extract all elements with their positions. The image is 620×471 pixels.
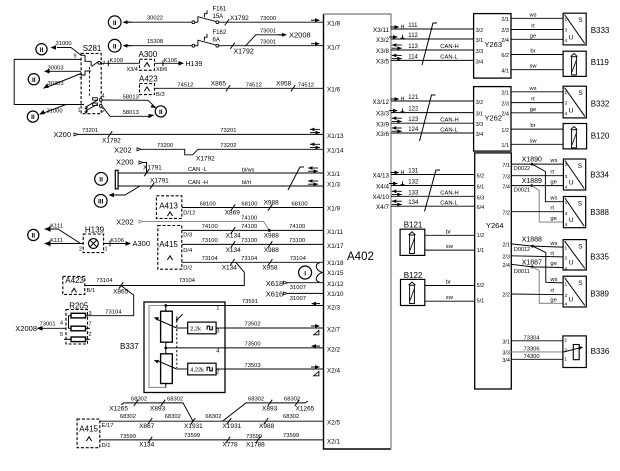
- svg-text:2/3: 2/3: [502, 254, 510, 260]
- svg-text:rt: rt: [550, 170, 554, 176]
- svg-text:3: 3: [565, 211, 568, 217]
- svg-text:K106: K106: [164, 58, 178, 64]
- svg-text:3: 3: [564, 347, 567, 353]
- svg-text:122: 122: [408, 107, 419, 113]
- svg-text:68302: 68302: [131, 396, 147, 402]
- svg-text:73200: 73200: [157, 143, 173, 149]
- wire K109: [101, 58, 163, 73]
- wire 15308: [123, 39, 194, 48]
- svg-text:123: 123: [408, 117, 419, 123]
- B337 pin1 wire 73591 to X2/3: [166, 299, 324, 311]
- svg-text:6/1: 6/1: [477, 185, 485, 191]
- CAN terminator block: [115, 170, 118, 189]
- svg-text:rt: rt: [531, 24, 535, 30]
- svg-text:3: 3: [565, 174, 568, 180]
- wire ws X1890 D0022 to B334: [511, 157, 563, 172]
- svg-text:X3/8: X3/8: [376, 48, 389, 55]
- svg-text:15308: 15308: [147, 39, 163, 45]
- svg-text:U: U: [569, 34, 574, 41]
- svg-text:2/4: 2/4: [501, 112, 509, 118]
- svg-text:X867: X867: [139, 423, 155, 430]
- svg-text:1: 1: [216, 306, 219, 312]
- svg-text:2/2: 2/2: [502, 293, 510, 299]
- svg-text:114: 114: [408, 54, 418, 60]
- wire rt to B335 pin3: [511, 251, 563, 257]
- svg-text:X1265: X1265: [296, 406, 315, 413]
- wire K111 lower: [44, 238, 83, 247]
- svg-text:A415: A415: [159, 240, 178, 249]
- svg-text:4: 4: [102, 93, 105, 99]
- B121 wires br sw to Y264: [425, 229, 475, 250]
- svg-text:U: U: [569, 259, 574, 266]
- svg-text:2/1: 2/1: [501, 17, 509, 23]
- svg-text:ws: ws: [528, 12, 536, 18]
- svg-text:br: br: [446, 280, 451, 286]
- svg-text:3/1: 3/1: [502, 339, 510, 345]
- wire 73001 to X2008: [15, 321, 66, 332]
- twisted pair marker bundle 1: [422, 23, 437, 65]
- svg-text:132: 132: [408, 180, 419, 186]
- svg-text:X1/6: X1/6: [327, 86, 340, 93]
- svg-text:X958: X958: [262, 265, 278, 272]
- svg-text:D/4: D/4: [183, 248, 193, 254]
- svg-text:73000: 73000: [260, 16, 276, 22]
- svg-text:B332: B332: [591, 100, 610, 109]
- circle II left mid: [28, 74, 39, 85]
- svg-text:X3/6: X3/6: [376, 131, 389, 138]
- wire 73104 from B/1 to X865 junction: [85, 278, 129, 296]
- svg-text:73202: 73202: [220, 143, 236, 149]
- svg-text:X618: X618: [266, 279, 284, 288]
- svg-text:134: 134: [408, 200, 419, 206]
- svg-text:73001: 73001: [260, 40, 276, 46]
- svg-text:X2008: X2008: [289, 31, 311, 40]
- svg-text:K106: K106: [110, 238, 124, 244]
- svg-text:X1/7: X1/7: [327, 44, 340, 51]
- wire rt to B334 pin3: [511, 170, 563, 176]
- svg-text:6/3: 6/3: [477, 195, 485, 201]
- svg-text:X3/9: X3/9: [376, 121, 389, 128]
- svg-text:73599: 73599: [120, 434, 136, 440]
- svg-text:III: III: [98, 199, 104, 206]
- branch ge (gray) to B389 pin4: [533, 267, 564, 304]
- svg-text:D0011: D0011: [514, 269, 530, 275]
- potentiometer 2: [154, 342, 225, 387]
- svg-text:30022: 30022: [147, 16, 163, 22]
- svg-text:2: 2: [89, 332, 92, 338]
- svg-text:3/3: 3/3: [502, 350, 510, 356]
- wire rt to B388 pin3: [511, 206, 563, 212]
- svg-text:X3/2: X3/2: [376, 37, 389, 44]
- svg-text:73104: 73104: [202, 256, 219, 262]
- svg-text:2/1: 2/1: [502, 243, 510, 249]
- svg-text:X202: X202: [116, 218, 134, 227]
- svg-text:Y264: Y264: [486, 221, 504, 230]
- svg-text:X202: X202: [114, 145, 132, 154]
- svg-text:7: 7: [102, 61, 105, 67]
- node 30-supply circle II row1: [108, 16, 121, 29]
- sensor B335: [563, 240, 609, 272]
- wire 31007 X616 to X1/10: [266, 289, 324, 302]
- svg-text:X3/11: X3/11: [373, 27, 389, 34]
- node 15-supply circle II row2: [108, 39, 121, 52]
- svg-text:D0022: D0022: [514, 166, 530, 172]
- svg-text:S: S: [578, 163, 583, 170]
- wire loop from pin 9 to pin 1 (31000): [14, 59, 81, 104]
- svg-text:B335: B335: [590, 253, 609, 262]
- svg-text:112: 112: [408, 33, 418, 39]
- svg-text:2: 2: [564, 338, 567, 344]
- pedal sensor B337: [120, 302, 225, 393]
- svg-text:74100: 74100: [241, 224, 257, 230]
- svg-text:X1788: X1788: [246, 442, 265, 449]
- svg-text:K109: K109: [110, 58, 124, 64]
- svg-text:68302: 68302: [165, 414, 181, 420]
- svg-text:X134: X134: [226, 233, 242, 240]
- svg-text:3: 3: [565, 255, 568, 261]
- A402 right pin labels X3/X4: [373, 27, 390, 211]
- svg-text:31007: 31007: [290, 296, 306, 302]
- wires br sw to B119: [511, 49, 563, 70]
- svg-text:73100: 73100: [289, 238, 305, 244]
- svg-text:U: U: [569, 217, 574, 224]
- connector Y262: [474, 87, 511, 152]
- svg-text:X1/13: X1/13: [327, 133, 344, 140]
- wire 30022: [123, 16, 194, 25]
- svg-text:X958: X958: [276, 81, 292, 88]
- svg-text:ge: ge: [530, 33, 536, 39]
- svg-text:sw: sw: [446, 244, 454, 250]
- svg-text:CAN -L: CAN -L: [188, 167, 208, 173]
- relay A300 (top): [139, 50, 158, 70]
- svg-text:II: II: [159, 109, 163, 116]
- svg-text:1: 1: [565, 281, 568, 287]
- svg-text:B333: B333: [591, 26, 610, 35]
- svg-text:X2/5: X2/5: [327, 419, 340, 426]
- control module A415 (bottom): [77, 419, 100, 448]
- svg-text:1/1: 1/1: [501, 143, 509, 149]
- svg-text:D/3: D/3: [183, 233, 192, 239]
- svg-text:X616: X616: [266, 289, 284, 298]
- svg-text:X988: X988: [259, 423, 275, 430]
- svg-text:73591: 73591: [242, 299, 258, 305]
- svg-text:74100: 74100: [241, 216, 257, 222]
- warning lamp H139: [79, 226, 108, 253]
- control module A415 (middle): [158, 226, 182, 270]
- svg-text:3/1: 3/1: [476, 112, 484, 118]
- svg-text:73100: 73100: [202, 238, 218, 244]
- B122 wires br sw to Y264: [425, 280, 475, 302]
- svg-text:6/4: 6/4: [477, 205, 485, 211]
- svg-text:1: 1: [565, 17, 568, 23]
- svg-text:4,22k: 4,22k: [190, 368, 204, 374]
- svg-text:sw: sw: [446, 295, 454, 301]
- svg-text:R205: R205: [69, 301, 89, 310]
- sensor B388: [563, 197, 609, 229]
- wire K111 upper diagonal: [44, 223, 81, 243]
- svg-text:Y262: Y262: [485, 114, 503, 123]
- temp sensor B121: [400, 221, 425, 256]
- temp sensor B119: [563, 51, 609, 76]
- sensor B389: [563, 276, 609, 308]
- svg-text:2: 2: [79, 247, 82, 253]
- svg-text:B389: B389: [590, 289, 609, 298]
- svg-text:sw: sw: [529, 138, 537, 144]
- svg-text:ge: ge: [550, 261, 556, 267]
- svg-text:5/2: 5/2: [477, 283, 485, 289]
- svg-text:X1/14: X1/14: [327, 148, 344, 155]
- wire 73503 to X2/4: [216, 363, 323, 376]
- svg-text:X1931: X1931: [222, 423, 241, 430]
- svg-text:74100: 74100: [202, 224, 218, 230]
- svg-text:1/2: 1/2: [501, 128, 509, 134]
- svg-text:B121: B121: [404, 221, 423, 230]
- svg-text:1/2: 1/2: [477, 233, 485, 239]
- svg-text:rt: rt: [550, 206, 554, 212]
- svg-text:H: H: [401, 24, 405, 30]
- wire 68302 main to X2/5: [100, 414, 324, 430]
- svg-text:68302: 68302: [248, 396, 264, 402]
- svg-text:74512: 74512: [298, 82, 314, 88]
- svg-text:X3/5: X3/5: [376, 59, 389, 66]
- svg-text:133: 133: [408, 190, 419, 196]
- wire ge X1889 D0021 to B334 pin4: [511, 178, 563, 193]
- svg-text:73500: 73500: [245, 342, 261, 348]
- svg-text:X2/4: X2/4: [327, 367, 340, 374]
- svg-text:3/4: 3/4: [476, 59, 484, 65]
- svg-text:I: I: [304, 270, 306, 277]
- svg-text:6/2: 6/2: [477, 174, 485, 180]
- svg-text:3/3: 3/3: [476, 122, 484, 128]
- svg-text:7/2: 7/2: [502, 211, 510, 217]
- wire K106 to H139: [155, 58, 203, 73]
- wire 73001 to X1/7: [219, 40, 324, 56]
- wires br sw to B120: [511, 123, 563, 144]
- svg-text:3: 3: [216, 329, 219, 335]
- svg-text:X200: X200: [54, 130, 72, 139]
- svg-text:D0021: D0021: [514, 188, 530, 194]
- fuse F161 15A: [192, 7, 227, 24]
- svg-text:X4/10: X4/10: [373, 194, 390, 201]
- svg-text:B334: B334: [590, 171, 609, 180]
- svg-text:X4/4: X4/4: [376, 183, 389, 190]
- svg-text:7: 7: [89, 321, 92, 327]
- svg-text:Y263: Y263: [485, 40, 503, 49]
- svg-text:4: 4: [565, 185, 568, 191]
- sensor B333: [563, 13, 610, 45]
- svg-text:5: 5: [60, 332, 63, 338]
- resistor pack R205: [60, 301, 92, 344]
- svg-text:bl/ws: bl/ws: [242, 167, 255, 173]
- control module A413: [156, 196, 181, 219]
- svg-text:X2/7: X2/7: [327, 327, 340, 334]
- svg-text:3/2: 3/2: [476, 28, 484, 34]
- svg-text:73503: 73503: [245, 363, 261, 369]
- svg-text:H: H: [401, 170, 405, 176]
- svg-text:74100: 74100: [289, 224, 305, 230]
- connector unit A423 (lower): [63, 276, 85, 294]
- svg-text:73001: 73001: [40, 321, 56, 327]
- coupling dashes + lever: [176, 314, 183, 368]
- svg-text:X893: X893: [262, 406, 278, 413]
- connector Y264: [475, 153, 512, 389]
- svg-text:X778: X778: [222, 442, 238, 449]
- sensor B332: [563, 86, 610, 118]
- svg-text:X893: X893: [150, 406, 166, 413]
- svg-text:111: 111: [408, 23, 418, 29]
- svg-text:B120: B120: [591, 132, 610, 141]
- svg-text:A413: A413: [159, 202, 178, 211]
- svg-text:2/4: 2/4: [502, 263, 510, 269]
- svg-text:X1792: X1792: [234, 49, 254, 56]
- svg-text:X1/8: X1/8: [327, 21, 340, 28]
- svg-text:U: U: [569, 107, 574, 114]
- svg-text:113: 113: [408, 44, 418, 50]
- svg-text:S: S: [578, 244, 583, 251]
- svg-text:73599: 73599: [283, 433, 299, 439]
- bypass branch right (X893 X1265): [223, 396, 315, 421]
- wire 74512 X865 X958 to X1/6: [155, 81, 324, 98]
- svg-text:ge: ge: [550, 216, 556, 222]
- svg-text:1: 1: [78, 108, 81, 114]
- wires 131-134 CAN bundle to Y264: [389, 169, 475, 207]
- wire 68100 X869 X988 to X1/9: [182, 200, 324, 217]
- svg-text:H139: H139: [85, 226, 105, 235]
- svg-text:3/3: 3/3: [476, 49, 484, 55]
- svg-text:ge: ge: [530, 107, 536, 113]
- resistor 2,2k with PWM: [177, 322, 225, 334]
- svg-text:br: br: [530, 49, 535, 55]
- svg-text:CAN -H: CAN -H: [188, 180, 208, 186]
- wire 73104 down to R205 pin 3: [88, 286, 134, 316]
- wire 73502 to X2/7: [216, 322, 323, 335]
- svg-text:58013: 58013: [123, 110, 139, 116]
- svg-text:X200: X200: [116, 158, 134, 167]
- svg-text:31000: 31000: [56, 41, 72, 47]
- svg-text:68302: 68302: [205, 414, 221, 420]
- svg-text:ge: ge: [550, 180, 556, 186]
- svg-text:68302: 68302: [120, 414, 136, 420]
- svg-text:X1791: X1791: [150, 178, 169, 185]
- svg-text:A300: A300: [133, 239, 151, 248]
- svg-text:58013: 58013: [123, 95, 139, 101]
- svg-text:15A: 15A: [213, 14, 224, 20]
- branch ge (gray) to B388 pin4: [532, 186, 564, 223]
- svg-text:X1/18: X1/18: [327, 260, 344, 267]
- svg-text:9: 9: [73, 54, 76, 60]
- wires ws rt ge to B332: [511, 86, 563, 113]
- fuse F162 6A: [192, 30, 227, 47]
- svg-text:II: II: [113, 43, 117, 50]
- svg-text:II: II: [40, 47, 44, 54]
- svg-text:S281: S281: [83, 44, 102, 53]
- svg-text:X1265: X1265: [109, 406, 128, 413]
- wire 74100 X134 X988 to X1/11: [182, 224, 324, 240]
- svg-text:31007: 31007: [290, 285, 306, 291]
- svg-text:1: 1: [565, 162, 568, 168]
- wires 121-124 CAN bundle to Y262: [389, 95, 474, 134]
- svg-text:3: 3: [79, 74, 82, 80]
- svg-text:X1889: X1889: [522, 178, 542, 185]
- svg-text:A402: A402: [347, 251, 374, 263]
- circle II CAN: [95, 173, 108, 186]
- svg-text:2/4: 2/4: [501, 38, 509, 44]
- svg-text:rt: rt: [550, 251, 554, 257]
- svg-text:X3/12: X3/12: [373, 99, 390, 106]
- svg-text:4: 4: [565, 222, 568, 228]
- wire CAN-H to X1/3: [118, 178, 323, 190]
- svg-text:X1/12: X1/12: [327, 281, 344, 288]
- svg-text:7/3: 7/3: [502, 175, 510, 181]
- terminal X202 wire 73200/73202 to X1/14: [114, 143, 323, 163]
- svg-text:124: 124: [408, 127, 419, 133]
- svg-text:3: 3: [565, 101, 568, 107]
- svg-text:F162: F162: [213, 30, 227, 36]
- svg-text:K111: K111: [50, 223, 63, 229]
- svg-text:II: II: [31, 233, 35, 240]
- svg-text:3: 3: [565, 293, 568, 299]
- wire 73001 branch to X2008: [246, 29, 311, 46]
- svg-text:73100: 73100: [241, 238, 257, 244]
- svg-text:6A: 6A: [213, 37, 220, 43]
- svg-text:X1/1: X1/1: [327, 171, 340, 178]
- svg-text:B336: B336: [591, 347, 610, 356]
- svg-text:73599: 73599: [184, 433, 200, 439]
- twisted pair marker bundle 2: [420, 95, 436, 141]
- svg-text:B119: B119: [591, 58, 610, 67]
- svg-text:rt: rt: [531, 97, 535, 103]
- svg-text:A300: A300: [139, 50, 158, 59]
- svg-text:F161: F161: [213, 7, 227, 13]
- svg-text:4/1: 4/1: [501, 68, 509, 74]
- svg-text:73001: 73001: [260, 29, 276, 35]
- svg-text:ge: ge: [550, 298, 556, 304]
- ground circle I with brace to X1/15: [299, 263, 323, 282]
- twisted pair marker bundle 3: [425, 170, 441, 212]
- svg-text:CAN-L: CAN-L: [440, 201, 458, 207]
- svg-text:B/1: B/1: [87, 288, 96, 294]
- wire 30003: [44, 65, 81, 73]
- svg-text:4: 4: [565, 38, 568, 44]
- svg-text:sw: sw: [529, 64, 537, 70]
- svg-text:2/3: 2/3: [501, 28, 509, 34]
- control unit A402: [324, 14, 392, 449]
- svg-text:74512: 74512: [177, 82, 193, 88]
- svg-text:rt: rt: [550, 288, 554, 294]
- sensor B334: [563, 159, 609, 191]
- svg-text:68100: 68100: [292, 201, 308, 207]
- svg-text:X1792: X1792: [196, 155, 215, 162]
- wire 73104 X134 X958 to X1/18: [182, 256, 324, 272]
- svg-text:X4/13: X4/13: [373, 172, 390, 179]
- branch ws to B388 pin1: [532, 164, 564, 202]
- svg-text:X134: X134: [226, 247, 242, 254]
- wires ws rt ge to B333: [511, 12, 563, 39]
- svg-text:1: 1: [565, 90, 568, 96]
- temp sensor B122: [401, 271, 425, 306]
- wire CAN-L to X1/1: [118, 165, 323, 177]
- svg-text:X1/15: X1/15: [327, 270, 344, 277]
- svg-text:3/4: 3/4: [502, 358, 510, 364]
- svg-text:X4/7: X4/7: [376, 204, 389, 211]
- svg-text:X1931: X1931: [184, 423, 203, 430]
- svg-text:6/2: 6/2: [501, 53, 509, 59]
- svg-text:X869: X869: [225, 210, 241, 217]
- svg-text:73502: 73502: [245, 322, 261, 328]
- svg-text:3/1: 3/1: [476, 38, 484, 44]
- svg-text:2/1: 2/1: [501, 91, 509, 97]
- svg-text:7/4: 7/4: [502, 184, 510, 190]
